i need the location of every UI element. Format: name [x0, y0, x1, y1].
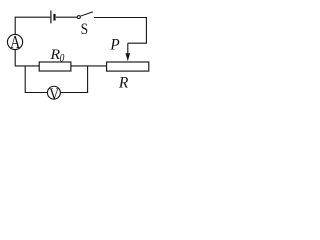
- wire: [15, 17, 50, 34]
- rheostat R: [107, 62, 149, 71]
- label R0: [49, 46, 65, 64]
- ammeter A: [7, 34, 22, 53]
- switch S: [77, 12, 93, 19]
- svg-text:P: P: [109, 36, 120, 53]
- resistor R0: [39, 62, 71, 71]
- wire: [25, 66, 47, 92]
- svg-text:0: 0: [60, 53, 65, 65]
- wire: [56, 16, 77, 18]
- wire: [71, 65, 107, 67]
- svg-text:A: A: [10, 34, 21, 53]
- svg-text:S: S: [81, 21, 88, 38]
- voltmeter V: [47, 85, 60, 104]
- wire: [15, 50, 39, 66]
- svg-text:V: V: [49, 85, 59, 104]
- svg-text:R: R: [118, 74, 129, 91]
- battery: [51, 11, 55, 24]
- wire: [61, 66, 88, 92]
- wire: [94, 18, 146, 44]
- slider P arrow: [126, 43, 131, 61]
